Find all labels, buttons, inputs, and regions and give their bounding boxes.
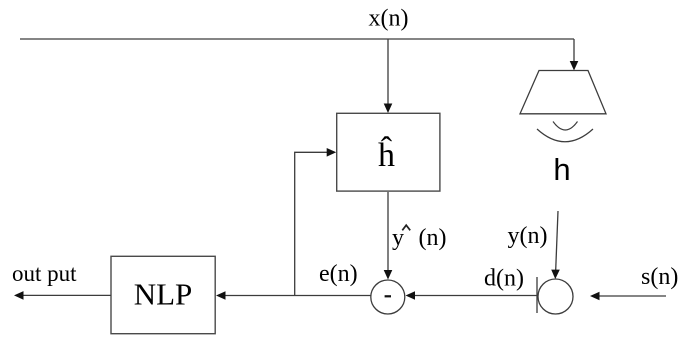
subtractor circle [371,280,405,314]
sound wave large arc [537,129,593,142]
adaptive filter h-hat box [337,113,440,191]
svg-text:y: y [392,225,404,251]
wire feedback up from e(n) node [295,152,329,295]
svg-text:NLP: NLP [134,277,193,312]
svg-text:(n): (n) [419,225,447,251]
wire y-hat(n) from h-hat box into subtractor [387,192,389,271]
loudspeaker (trapezoid) [520,71,606,114]
svg-text:e(n): e(n) [319,261,358,287]
svg-text:h: h [553,152,570,187]
wire branch down into loudspeaker [573,39,575,61]
adder input tick mark [536,277,538,313]
sound wave small arc [553,122,578,131]
wire slanted y(n) into adder [556,211,558,270]
svg-text:s(n): s(n) [641,264,678,290]
adder junction circle [538,279,573,314]
svg-text:y(n): y(n) [508,223,548,249]
svg-text:d(n): d(n) [484,266,524,292]
NLP box [111,256,215,333]
svg-text:x(n): x(n) [369,6,409,32]
wire top horizontal x(n) bus [20,38,574,40]
svg-text:out put: out put [12,261,77,286]
wire output arrow from NLP [21,294,111,296]
subtractor minus sign [385,295,391,297]
wire e(n) from subtractor to NLP [223,295,371,297]
wire branch down into h-hat box [387,39,389,104]
wire d(n) from adder to subtractor [412,295,537,297]
wire s(n) arrow into adder [597,295,666,297]
svg-text:ĥ: ĥ [378,136,395,174]
